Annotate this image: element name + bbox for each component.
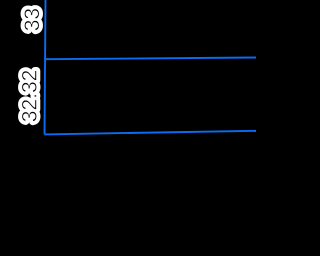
wire: vertical cable segment: [45, 0, 46, 134]
svg-text:32.32: 32.32: [19, 70, 42, 123]
wire: lower horizontal cable: [45, 131, 257, 135]
background canvas: [0, 0, 256, 256]
label 33 (length of upper vertical segment): [21, 8, 44, 31]
label 32.32 (length of lower vertical segment): [19, 70, 42, 123]
svg-text:33: 33: [21, 8, 44, 31]
wire: upper horizontal cable: [45, 58, 257, 60]
